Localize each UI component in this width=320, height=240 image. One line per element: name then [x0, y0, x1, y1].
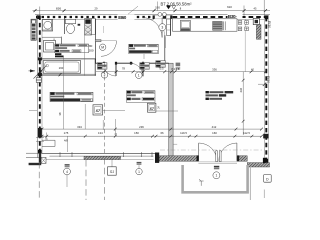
circled 4 bottom [64, 164, 71, 187]
double door right arc [219, 143, 237, 161]
svg-text:134: 134 [98, 131, 103, 135]
wall end mini table [156, 61, 166, 68]
left wall axis above [39, 7, 41, 18]
double door left arc [199, 143, 217, 161]
room label table T2 [129, 44, 159, 54]
wall stub tick [173, 143, 177, 145]
L-step bottom-left [26, 152, 42, 154]
svg-text:4: 4 [66, 170, 68, 174]
entrance jamb left [153, 15, 155, 19]
svg-text:8 2,0 8: 8 2,0 8 [171, 67, 179, 71]
left wall outer face [37, 15, 39, 158]
svg-text:66: 66 [160, 131, 164, 135]
svg-text:S1: S1 [110, 170, 114, 174]
wall step block [155, 153, 159, 163]
dimension chain line 1 [42, 128, 262, 130]
door 2 mini table [140, 63, 150, 70]
bottom wall B hatch right [237, 156, 247, 161]
svg-text:610: 610 [227, 5, 232, 9]
entrance hinge circles [158, 13, 162, 17]
door leaves [216, 151, 218, 162]
right wall outer face [267, 15, 269, 163]
kitchen sink [181, 20, 191, 31]
svg-text:119.5: 119.5 [180, 131, 187, 135]
bathtub [43, 61, 80, 74]
door 1 mini table [97, 63, 107, 70]
bottom wall A outer line [42, 152, 155, 154]
grid line right [263, 0, 265, 17]
door 2 leaf [142, 63, 144, 76]
left wall inner face [41, 19, 43, 153]
svg-text:200: 200 [89, 49, 94, 53]
svg-text:334: 334 [77, 125, 82, 129]
double door leaf left [198, 143, 200, 161]
canopy dashed line [160, 149, 265, 151]
room label table T5 [127, 91, 156, 103]
wall corner blocks [37, 15, 41, 19]
dining squares [238, 21, 248, 31]
grid line [243, 6, 245, 18]
dark text cells [55, 53, 64, 57]
entrance jamb right [170, 15, 172, 19]
entry closet [167, 17, 171, 35]
balcony gray line right [249, 167, 251, 201]
svg-text:1: 1 [138, 170, 140, 174]
double door jambs [197, 155, 199, 161]
T2 leader [143, 54, 145, 59]
svg-text:EI30›: EI30› [228, 14, 237, 19]
balcony mini label [214, 166, 219, 170]
small cabinet [42, 139, 55, 141]
svg-text:78: 78 [122, 67, 126, 71]
chain vertical connectors [114, 119, 116, 136]
narrow wall band [92, 19, 96, 35]
WC door arc [101, 41, 117, 57]
chain dark wall crossing [263, 134, 268, 139]
circled M [100, 44, 106, 50]
bath wall tick [59, 72, 63, 76]
circled 1 bottom [136, 162, 142, 175]
svg-text:1: 1 [138, 73, 140, 77]
interior vertical dim [62, 56, 64, 129]
svg-text:336: 336 [212, 67, 217, 71]
dimension tick [34, 9, 268, 12]
EI30 label [228, 14, 243, 19]
entry corridor wall [164, 35, 166, 63]
property dashed lines [38, 162, 40, 200]
right wall inner face [263, 19, 265, 163]
WC divider wall [60, 37, 62, 44]
duct wall [85, 19, 92, 35]
bottom wall B hatch left [159, 156, 198, 161]
left wall junction blocks [38, 57, 42, 60]
bathroom top wall [42, 58, 96, 60]
hatched pier A [84, 156, 121, 159]
S7 box b [148, 103, 156, 112]
window inner line A1 [42, 158, 84, 160]
left wall dashed [39, 16, 41, 154]
kitchen appliance hatched [213, 21, 223, 30]
vertical dim line living [242, 72, 244, 135]
right wall tick [258, 83, 263, 85]
toilet [65, 19, 75, 33]
svg-text:175: 175 [64, 131, 69, 135]
room label table T1 [55, 44, 89, 53]
shaft left outside [31, 19, 36, 40]
svg-text:75.5: 75.5 [159, 67, 164, 70]
svg-text:1: 1 [216, 174, 218, 178]
entrance frame lines [154, 14, 172, 16]
svg-text:EI30: EI30 [267, 21, 271, 28]
room label table T4 [50, 92, 93, 102]
top wall inner face left [42, 18, 154, 20]
entrance door arc [142, 18, 162, 38]
top wall dashed left segment [36, 16, 154, 18]
wall ladder detail [36, 78, 41, 83]
WC room wall [64, 18, 66, 34]
bathroom bottom wall [42, 73, 96, 75]
door 2 arc [130, 63, 143, 76]
entrance jamb middle [163, 15, 166, 18]
top wall dashed right segment [173, 16, 268, 18]
left wall thickness dim [36, 136, 44, 138]
top dimension line [33, 10, 271, 12]
bottom wall C [247, 163, 269, 167]
double door leaf right [236, 143, 238, 161]
right wall dashed [265, 17, 267, 163]
S7 box a [93, 105, 103, 115]
svg-text:M: M [101, 46, 104, 50]
door 1 jambs [103, 62, 105, 65]
section break on wall [34, 65, 47, 78]
partition dashed [104, 63, 106, 153]
WC counter edge [42, 36, 61, 38]
interior dimension line y72 [96, 71, 266, 73]
window inner line A2 [121, 158, 154, 160]
circled 2 [101, 72, 108, 79]
shower tray [44, 39, 56, 52]
hall bottom wall segments [95, 62, 104, 64]
svg-text:EI60: EI60 [118, 15, 127, 20]
storage faint mark [103, 26, 105, 33]
svg-text:150: 150 [134, 131, 139, 135]
S7a leader [103, 110, 125, 112]
chain ticks line2 [41, 135, 263, 138]
svg-text:412: 412 [212, 125, 217, 129]
dimension chain line 2 [42, 135, 262, 137]
leader line [157, 2, 159, 11]
door 2 jambs [130, 62, 132, 65]
svg-text:236: 236 [139, 125, 144, 129]
circled 3 [159, 24, 166, 31]
leader diagonal [128, 6, 138, 14]
balcony [183, 165, 248, 192]
room label table T6 [206, 91, 234, 100]
grid line living room [244, 19, 246, 71]
EI60 label [118, 15, 135, 20]
pier hatched right [256, 25, 261, 40]
shaft right [253, 18, 259, 24]
svg-text:112.5: 112.5 [243, 131, 250, 135]
svg-text:3: 3 [161, 26, 163, 30]
threshold lines [198, 161, 237, 163]
svg-text:836: 836 [56, 7, 61, 11]
svg-text:436: 436 [239, 87, 243, 92]
chain ticks line1 [41, 128, 263, 131]
window line A [50, 155, 154, 157]
hall L-wall horizontal [95, 40, 101, 42]
entrance door leaf [161, 18, 163, 38]
leader from 3 [164, 31, 166, 48]
window ticks [60, 152, 152, 157]
wall C dark tick [263, 158, 266, 163]
svg-text:160: 160 [59, 66, 64, 70]
balcony circled 1 [213, 172, 220, 179]
S7b leader [156, 110, 178, 112]
door 1 leaf [115, 63, 117, 76]
section arrow left [30, 69, 35, 72]
S1 box [108, 159, 117, 176]
svg-text:B7 2.06 58.58m²: B7 2.06 58.58m² [161, 1, 193, 6]
bathroom right wall [94, 59, 96, 76]
storage room left wall [95, 19, 97, 64]
kitchen counter [173, 19, 238, 31]
top wall outer face [35, 14, 270, 16]
svg-text:80: 80 [89, 44, 93, 48]
top wall inner face right [173, 18, 265, 20]
small fixture box [78, 24, 81, 26]
level marker triangle [166, 6, 171, 10]
spot level marker [199, 180, 203, 182]
box D [264, 175, 272, 183]
small dash below [263, 190, 265, 199]
vertical dim ticks [242, 79, 245, 82]
svg-text:160: 160 [212, 131, 217, 135]
svg-text:EI30: EI30 [266, 76, 270, 83]
washing machine [42, 20, 52, 31]
central wall [169, 63, 173, 157]
door 1 arc [103, 63, 116, 76]
lower tick [29, 110, 37, 112]
circled 1 [136, 72, 143, 79]
